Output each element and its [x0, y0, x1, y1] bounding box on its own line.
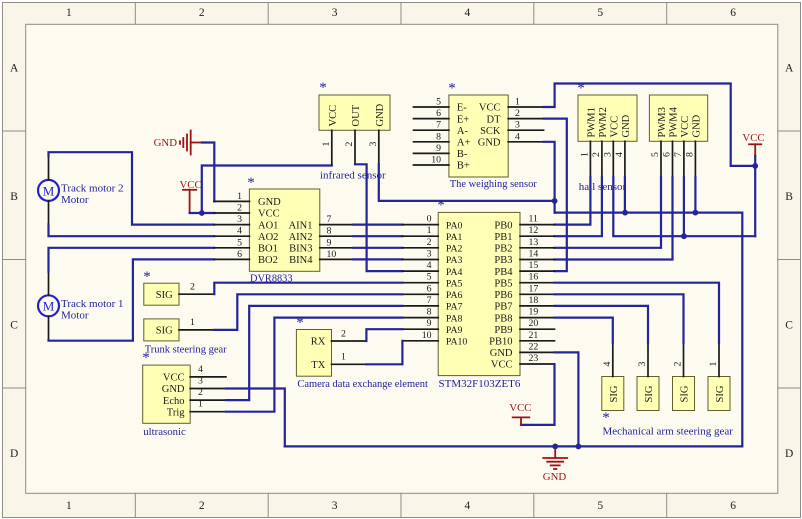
pin 18 PB7 STM32 [494, 295, 554, 313]
svg-text:VCC: VCC [609, 116, 620, 138]
pin 3 VCC hall sensor 1 [603, 116, 621, 177]
svg-text:PB4: PB4 [494, 267, 513, 278]
wire hall2 VCC to VCC net [683, 177, 685, 236]
svg-text:23: 23 [529, 353, 539, 364]
wire trunk SIG2 to STM32 PA5 [214, 283, 402, 295]
wire VCC (right) stem [754, 156, 756, 236]
svg-text:GND: GND [154, 137, 178, 149]
svg-text:VCC: VCC [680, 116, 691, 138]
junction hall1 GND [622, 210, 628, 216]
wire AIN1 to STM32 PA0 [353, 224, 402, 226]
svg-text:4: 4 [465, 500, 471, 512]
pin 13 PB2 STM32 [494, 237, 554, 255]
pin 3 GND infrared sensor [368, 103, 386, 164]
svg-text:PB10: PB10 [489, 337, 512, 348]
component The weighing sensor [449, 95, 508, 177]
svg-text:STM32F103ZET6: STM32F103ZET6 [439, 378, 521, 390]
component trunk SIG 1 [144, 319, 179, 341]
svg-text:1: 1 [190, 317, 195, 328]
svg-text:TX: TX [311, 360, 325, 371]
svg-text:7: 7 [436, 120, 441, 131]
svg-text:PA1: PA1 [446, 232, 463, 243]
svg-text:Track motor 2: Track motor 2 [61, 182, 124, 194]
wire hall1 GND to GND bus [624, 177, 626, 213]
motor M2 Track motor 2 [38, 180, 59, 201]
pin 1 VCC weighing sensor [479, 97, 544, 114]
svg-text:3: 3 [237, 214, 242, 225]
svg-text:Camera data exchange element: Camera data exchange element [297, 378, 428, 390]
svg-text:PB8: PB8 [494, 313, 512, 324]
svg-text:A-: A- [457, 126, 469, 137]
svg-text:3: 3 [332, 500, 338, 512]
wire STM32 PB5 to mech arm SIG1 [555, 283, 720, 344]
svg-text:7: 7 [327, 214, 332, 225]
svg-text:3: 3 [603, 152, 614, 157]
wire weighing VCC to VCC net [544, 84, 756, 166]
pin 4 GND hall sensor 1 [614, 114, 632, 177]
pin 15 PB4 STM32 [494, 260, 554, 278]
svg-text:AIN2: AIN2 [289, 232, 313, 243]
svg-text:PB7: PB7 [494, 302, 512, 313]
svg-text:VCC: VCC [328, 105, 339, 127]
pin 1 Trig ultrasonic [167, 399, 226, 419]
wire PWM3 to STM32 PB2 [555, 177, 662, 248]
junction hall2 GND [693, 210, 699, 216]
svg-text:*: * [142, 350, 150, 366]
svg-text:GND: GND [162, 384, 185, 395]
svg-text:infrared sensor: infrared sensor [320, 170, 386, 182]
power symbol GND (left) [154, 131, 202, 155]
svg-text:GND: GND [375, 103, 386, 126]
wire M2 bottom to AO2 [49, 225, 215, 237]
wire camera TX to STM32 PA10 [366, 341, 402, 365]
svg-text:4: 4 [515, 131, 520, 142]
wire trunk SIG1 to STM32 PA6 [214, 294, 402, 330]
component U1 DVR8833 [249, 189, 319, 271]
pin 9 PA9 STM32 [402, 318, 462, 336]
svg-text:9: 9 [327, 237, 332, 248]
pin 10 BIN4 DVR8833 [289, 249, 353, 266]
junction VCC node [199, 210, 205, 216]
svg-text:12: 12 [529, 225, 539, 236]
svg-text:*: * [143, 269, 151, 285]
svg-text:6: 6 [662, 152, 673, 157]
svg-text:M: M [43, 299, 55, 314]
pin 1 mech arm SIG1 [708, 343, 719, 376]
svg-text:4: 4 [427, 260, 432, 271]
wire weighing DT to STM32 PB4 [544, 119, 567, 272]
svg-text:PA7: PA7 [446, 302, 463, 313]
pin 7 AIN1 DVR8833 [289, 214, 354, 231]
wire STM32 PB8 to mech arm SIG4 [555, 318, 613, 344]
pin 5 PA5 STM32 [402, 272, 462, 290]
pin 2 OUT infrared sensor [344, 104, 362, 164]
pin 1 GND DVR8833 [214, 191, 281, 208]
svg-text:2: 2 [515, 108, 520, 119]
wire STM32 PB6 to mech arm SIG2 [555, 294, 684, 343]
svg-text:SIG: SIG [156, 326, 173, 337]
pin M1 bottom [48, 316, 50, 340]
pin 6 E+ weighing sensor [414, 108, 470, 125]
wire GND to DVR8833 pin1 [202, 143, 214, 202]
svg-text:20: 20 [529, 318, 539, 329]
pin 4 PA4 STM32 [402, 260, 462, 278]
svg-text:PA10: PA10 [446, 337, 468, 348]
svg-text:PA4: PA4 [446, 267, 463, 278]
pin 2 trunk SIG2 [179, 282, 214, 295]
svg-text:2: 2 [199, 7, 205, 19]
svg-text:AO2: AO2 [258, 232, 278, 243]
wire STM32 PB7 to mech arm SIG3 [555, 306, 649, 343]
svg-text:7: 7 [673, 152, 684, 157]
wire camera RX to STM32 PA9 [366, 329, 402, 341]
pin 1 PA1 STM32 [402, 225, 462, 243]
svg-text:GND: GND [692, 114, 703, 137]
svg-text:2: 2 [341, 328, 346, 339]
pin 5 BO1 DVR8833 [214, 237, 278, 254]
pin 12 PB1 STM32 [494, 225, 554, 243]
pin M2 top [48, 156, 50, 180]
svg-text:2: 2 [344, 142, 355, 147]
wire STM32 VCC pin23 to VCC symbol [521, 364, 555, 425]
wire M2 top to AO1 [49, 152, 215, 224]
pin 2 RX camera [311, 328, 367, 347]
component ultrasonic [143, 365, 191, 423]
pin 2 Echo ultrasonic [163, 387, 226, 407]
svg-text:4: 4 [465, 7, 471, 19]
svg-text:1: 1 [341, 352, 346, 363]
svg-text:PB5: PB5 [494, 278, 512, 289]
svg-text:6: 6 [730, 7, 736, 19]
svg-text:5: 5 [597, 7, 603, 19]
svg-text:GND: GND [490, 348, 513, 359]
component U2 STM32F103ZET6 [438, 212, 520, 375]
svg-text:2: 2 [237, 203, 242, 214]
pin 9 B- weighing sensor [414, 143, 468, 160]
component camera data exchange element [296, 330, 331, 377]
pin 4 VCC ultrasonic [163, 364, 226, 384]
svg-text:VCC: VCC [479, 103, 501, 114]
svg-text:3: 3 [515, 120, 520, 131]
svg-text:1: 1 [580, 152, 591, 157]
pin 7 VCC hall sensor 2 [673, 116, 691, 177]
junction GND symbol on rail [552, 444, 558, 450]
wire ultrasonic Trig to STM32 PA8 [226, 318, 403, 412]
svg-text:8: 8 [427, 307, 432, 318]
svg-text:SIG: SIG [609, 385, 620, 402]
pin 4 mech arm SIG4 [602, 343, 613, 376]
pin 20 PB9 STM32 [494, 318, 554, 336]
component mech arm SIG 1 [708, 377, 730, 411]
svg-text:PA9: PA9 [446, 325, 463, 336]
power symbol VCC (bottom) [509, 402, 531, 425]
svg-text:0: 0 [427, 214, 432, 225]
svg-text:3: 3 [637, 362, 648, 367]
svg-text:14: 14 [529, 249, 539, 260]
svg-text:6: 6 [730, 500, 736, 512]
svg-text:17: 17 [529, 283, 539, 294]
pin 2 mech arm SIG2 [673, 343, 684, 376]
svg-text:SCK: SCK [480, 126, 501, 137]
svg-text:Motor: Motor [61, 194, 89, 206]
svg-text:4: 4 [237, 226, 242, 237]
svg-text:GND: GND [478, 138, 501, 149]
svg-text:BIN3: BIN3 [289, 244, 312, 255]
motor M1 Track motor 1 [38, 295, 59, 316]
svg-text:B: B [10, 191, 18, 203]
pin 3 AO1 DVR8833 [214, 214, 278, 231]
junction hall2 VCC [681, 233, 687, 239]
svg-text:PA0: PA0 [446, 220, 463, 231]
svg-text:PB1: PB1 [494, 232, 512, 243]
wire PWM2 to STM32 PB1 [555, 177, 602, 236]
svg-text:4: 4 [602, 362, 613, 367]
svg-text:PA3: PA3 [446, 255, 463, 266]
component mech arm SIG 2 [673, 377, 695, 411]
pin 8 GND hall sensor 2 [685, 114, 703, 177]
component mech arm SIG 4 [602, 377, 624, 411]
svg-text:10: 10 [431, 155, 441, 166]
svg-text:6: 6 [436, 108, 441, 119]
svg-text:PWM3: PWM3 [657, 107, 668, 137]
svg-text:1: 1 [427, 225, 432, 236]
svg-text:PB9: PB9 [494, 325, 512, 336]
svg-text:2: 2 [673, 362, 684, 367]
svg-text:5: 5 [436, 97, 441, 108]
pin 17 PB6 STM32 [494, 283, 554, 301]
svg-text:5: 5 [237, 237, 242, 248]
wire AIN2 to STM32 PA1 [353, 235, 402, 237]
wire hall2 GND to GND bus [694, 177, 696, 213]
wire PWM1 to STM32 PB0 [555, 177, 591, 225]
pin 3 mech arm SIG3 [637, 343, 648, 376]
svg-text:SIG: SIG [644, 385, 655, 402]
svg-text:B: B [785, 191, 793, 203]
pin 6 BO2 DVR8833 [214, 249, 278, 266]
svg-text:PWM4: PWM4 [669, 106, 680, 137]
svg-text:SIG: SIG [156, 290, 173, 301]
svg-text:22: 22 [529, 341, 539, 352]
svg-text:A: A [785, 62, 794, 74]
pin 7 A- weighing sensor [414, 120, 469, 137]
svg-text:3: 3 [332, 7, 338, 19]
pin 11 PB0 STM32 [494, 214, 554, 232]
svg-text:PB2: PB2 [494, 244, 512, 255]
pin 0 PA0 STM32 [402, 214, 462, 232]
svg-text:PB6: PB6 [494, 290, 512, 301]
svg-text:1: 1 [515, 97, 520, 108]
svg-text:9: 9 [427, 318, 432, 329]
svg-text:A: A [10, 62, 19, 74]
svg-text:*: * [577, 81, 585, 97]
pin 7 PA7 STM32 [402, 295, 462, 313]
component hall sensor block 2 [649, 95, 707, 141]
svg-text:Motor: Motor [61, 309, 89, 321]
junction VCC right node [752, 163, 758, 169]
svg-text:RX: RX [311, 337, 326, 348]
svg-text:5: 5 [427, 272, 432, 283]
pin 9 BIN3 DVR8833 [289, 237, 353, 254]
svg-text:VCC: VCC [509, 402, 531, 414]
svg-text:13: 13 [529, 237, 539, 248]
wire VCC branch to infrared sensor VCC [202, 166, 332, 214]
svg-text:AIN1: AIN1 [289, 220, 313, 231]
pin 2 PWM2 hall sensor 1 [591, 107, 609, 177]
svg-text:ultrasonic: ultrasonic [143, 426, 186, 438]
svg-text:*: * [437, 198, 445, 214]
power symbol VCC (left) [179, 179, 201, 213]
svg-text:PA6: PA6 [446, 290, 463, 301]
svg-text:B+: B+ [457, 161, 470, 172]
component trunk SIG 2 [144, 283, 179, 305]
pin 2 VCC DVR8833 [214, 203, 279, 220]
svg-text:E-: E- [457, 103, 467, 114]
component mech arm SIG 3 [637, 377, 659, 411]
svg-text:PWM1: PWM1 [587, 107, 598, 137]
svg-text:D: D [10, 448, 18, 460]
pin 3 PA3 STM32 [402, 249, 462, 267]
svg-text:*: * [296, 315, 304, 331]
pin 1 TX camera [311, 352, 366, 371]
svg-text:1: 1 [708, 362, 719, 367]
svg-text:B-: B- [457, 149, 468, 160]
pin 19 PB8 STM32 [494, 307, 554, 325]
pin 23 VCC STM32 [491, 353, 555, 371]
svg-text:SIG: SIG [680, 385, 691, 402]
svg-text:1: 1 [66, 500, 72, 512]
svg-text:PA8: PA8 [446, 313, 463, 324]
wire infrared OUT to STM32 PA4 [355, 164, 402, 271]
wire weighing GND down to GND bus [544, 142, 555, 213]
wire BIN3 to STM32 PA2 [353, 247, 402, 249]
svg-text:PWM2: PWM2 [598, 107, 609, 137]
pin 8 A+ weighing sensor [414, 131, 471, 148]
svg-text:2: 2 [427, 237, 432, 248]
junction weighing GND / infrared GND [552, 198, 558, 204]
svg-text:3: 3 [368, 142, 379, 147]
component hall sensor block 1 [578, 95, 637, 141]
svg-text:9: 9 [436, 143, 441, 154]
svg-text:M: M [43, 183, 55, 198]
pin 4 AO2 DVR8833 [214, 226, 278, 243]
wire M1 bottom to BO2 [49, 259, 215, 340]
pin 2 PA2 STM32 [402, 237, 462, 255]
svg-text:7: 7 [427, 295, 432, 306]
pin 22 GND STM32 [490, 341, 555, 359]
svg-text:10: 10 [422, 330, 432, 341]
wire VCC to DVR8833 pin2 [190, 212, 215, 214]
svg-text:18: 18 [529, 295, 539, 306]
pin 4 GND weighing sensor [478, 131, 544, 148]
svg-text:2: 2 [591, 152, 602, 157]
svg-text:VCC: VCC [163, 373, 185, 384]
pin 14 PB3 STM32 [494, 249, 554, 267]
svg-text:19: 19 [529, 307, 539, 318]
svg-text:PA5: PA5 [446, 278, 463, 289]
wire M1 top to BO1 [49, 248, 215, 272]
svg-text:4: 4 [614, 152, 625, 157]
power symbol GND (bottom) [543, 446, 567, 483]
pin 5 E- weighing sensor [414, 97, 468, 114]
svg-text:1: 1 [198, 399, 203, 410]
pin 3 GND ultrasonic [162, 376, 226, 396]
svg-text:Trig: Trig [167, 407, 185, 418]
svg-text:C: C [10, 319, 18, 331]
pin M2 bottom [48, 201, 50, 225]
pin 1 PWM1 hall sensor 1 [580, 107, 598, 177]
component infrared sensor [319, 95, 390, 130]
svg-text:*: * [319, 80, 327, 96]
svg-text:11: 11 [529, 214, 539, 225]
pin 3 SCK weighing sensor [480, 120, 544, 137]
pin 10 B+ weighing sensor [414, 155, 470, 172]
wire hall1 VCC to VCC net [613, 177, 755, 236]
svg-text:The weighing sensor: The weighing sensor [450, 178, 537, 190]
svg-text:E+: E+ [457, 114, 469, 125]
svg-text:8: 8 [436, 131, 441, 142]
svg-text:GND: GND [258, 197, 281, 208]
pin 6 PWM4 hall sensor 2 [662, 106, 680, 176]
wire ultrasonic Echo to STM32 PA7 [226, 306, 403, 400]
svg-text:C: C [785, 319, 793, 331]
svg-text:SIG: SIG [715, 385, 726, 402]
pin 5 PWM3 hall sensor 2 [650, 107, 668, 177]
svg-text:3: 3 [198, 376, 203, 387]
svg-text:*: * [602, 410, 610, 426]
svg-text:5: 5 [650, 152, 661, 157]
svg-text:15: 15 [529, 260, 539, 271]
svg-text:Trunk steering gear: Trunk steering gear [145, 344, 227, 356]
svg-text:PB3: PB3 [494, 255, 512, 266]
svg-text:VCC: VCC [742, 132, 764, 144]
svg-text:GND: GND [543, 471, 567, 483]
wire PWM4 to STM32 PB3 [555, 177, 673, 260]
svg-text:BIN4: BIN4 [289, 255, 313, 266]
svg-text:D: D [785, 448, 793, 460]
svg-text:8: 8 [685, 152, 696, 157]
svg-text:Mechanical arm steering gear: Mechanical arm steering gear [603, 426, 734, 438]
svg-text:*: * [448, 80, 456, 96]
svg-text:BO2: BO2 [258, 255, 278, 266]
pin 21 PB10 STM32 [489, 330, 554, 348]
pin 1 VCC infrared sensor [321, 105, 339, 164]
svg-text:PB0: PB0 [494, 220, 512, 231]
power symbol VCC (right) [742, 132, 764, 156]
svg-text:2: 2 [198, 387, 203, 398]
svg-text:VCC: VCC [491, 360, 513, 371]
svg-text:BO1: BO1 [258, 244, 278, 255]
svg-text:DT: DT [487, 114, 502, 125]
svg-text:Echo: Echo [163, 396, 185, 407]
svg-text:16: 16 [529, 272, 539, 283]
pin 8 AIN2 DVR8833 [289, 226, 354, 243]
svg-text:1: 1 [66, 7, 72, 19]
pin 1 trunk SIG1 [179, 317, 214, 330]
wire STM32 GND pin22 to GND rail [555, 352, 579, 446]
wire ultrasonic GND to GND rail [226, 389, 285, 447]
svg-text:8: 8 [327, 226, 332, 237]
wire GND bus to bottom rail [285, 213, 743, 447]
svg-text:VCC: VCC [258, 209, 280, 220]
svg-text:2: 2 [199, 500, 205, 512]
svg-text:6: 6 [427, 283, 432, 294]
pin 16 PB5 STM32 [494, 272, 554, 290]
junction GND pin22 on rail [576, 444, 582, 450]
wire BIN4 to STM32 PA3 [353, 258, 402, 260]
pin M1 top [48, 272, 50, 296]
svg-text:AO1: AO1 [258, 220, 278, 231]
svg-text:*: * [247, 175, 255, 191]
